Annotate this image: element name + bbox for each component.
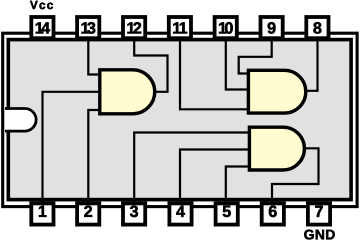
pin 14 box (31, 17, 53, 38)
pin 7 box (308, 203, 330, 224)
pin 12 box (123, 17, 145, 38)
wire: pin 13 to gate U1 input A (88, 39, 98, 75)
pin 1 box (31, 203, 53, 224)
pin 13 box (77, 17, 99, 38)
GND label (304, 230, 334, 240)
wire: pin 11 to gate U2 input C (180, 39, 247, 110)
and-gate U1 (100, 70, 155, 114)
wire: pin 9 to gate U2 input A (239, 39, 272, 74)
Vcc label (30, 1, 53, 9)
wire: pin 3 to gate U3 input A (134, 133, 248, 202)
wire: pin 1 to gate U1 input B (43, 92, 99, 202)
pin 8 box (306, 17, 328, 38)
wire: pin 5 to gate U3 input C (226, 167, 248, 202)
pin 2 box (77, 203, 99, 224)
wire: gate U2 output to pin 8 (305, 39, 318, 91)
pin 10 box (215, 17, 237, 38)
wire: gate U1 output to pin 12 (134, 39, 167, 92)
pin 6 box (262, 203, 284, 224)
pin 3 box (123, 203, 145, 224)
and-gate U2 (248, 70, 305, 113)
pin 5 box (216, 203, 238, 224)
wire: gate U3 output to pin 6 (272, 148, 319, 201)
outer rail rectangle (3, 33, 357, 206)
pin 9 box (261, 17, 283, 38)
wire: pin 4 to gate U3 input B (180, 150, 248, 202)
notch (5, 109, 36, 132)
and-gate U3 (249, 127, 304, 170)
wire: pin 10 to gate U2 input B (226, 39, 247, 90)
pin 4 box (169, 203, 191, 224)
wire: pin 2 to gate U1 input C (88, 110, 98, 202)
pin 11 box (169, 17, 191, 38)
IC body (8, 40, 351, 200)
